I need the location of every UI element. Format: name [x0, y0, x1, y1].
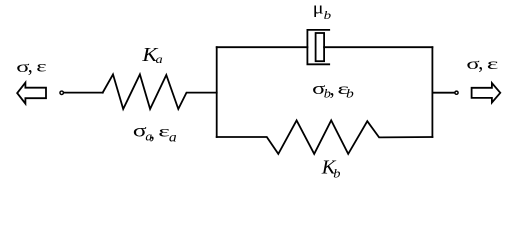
svg-text:a: a — [156, 52, 164, 66]
svg-text:a: a — [169, 130, 177, 145]
svg-text:,: , — [150, 122, 155, 144]
svg-text:,: , — [28, 55, 33, 77]
svg-text:ε: ε — [487, 54, 499, 72]
svg-text:b: b — [324, 9, 332, 22]
svg-text:ε: ε — [36, 57, 47, 76]
svg-text:,: , — [478, 52, 483, 74]
svg-text:b: b — [346, 87, 354, 101]
svg-text:,: , — [330, 78, 335, 100]
svg-text:b: b — [333, 166, 340, 180]
svg-text:μ: μ — [313, 0, 324, 18]
